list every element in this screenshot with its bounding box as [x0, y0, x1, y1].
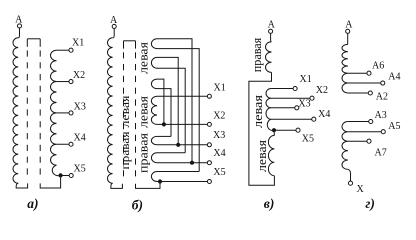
terminal A5 (fig g) — [381, 130, 385, 134]
bottom wire left winding to core left limb (fig b) — [111, 183, 123, 188]
upper winding section (fig g) — [342, 44, 348, 93]
wire S1 bottom to S7 top (fig b) — [157, 49, 199, 172]
terminal A (fig g) — [346, 29, 350, 33]
svg-text:левая: левая — [254, 140, 269, 172]
junction X5 (fig a) — [59, 173, 63, 177]
winding section S1 (fig b) — [151, 39, 157, 49]
terminal X5 (fig a) — [69, 173, 73, 177]
junction X4 (fig b) — [190, 161, 194, 165]
core left limb solid stub (fig b) — [123, 41, 125, 49]
core right limb dashed (fig b) — [135, 52, 137, 179]
svg-text:X4: X4 — [318, 109, 330, 120]
terminal X1 (fig v) — [293, 86, 297, 90]
svg-text:A7: A7 — [375, 147, 387, 158]
terminal A7 (fig g) — [367, 139, 371, 143]
junction X5 (fig b) — [158, 179, 162, 183]
svg-text:X3: X3 — [74, 102, 86, 113]
terminal X4 (fig b) — [207, 161, 211, 165]
terminal A4 (fig g) — [381, 81, 385, 85]
svg-text:а): а) — [27, 196, 38, 211]
svg-text:X1: X1 — [214, 83, 226, 94]
wire junction to levaya-2 (fig v) — [273, 130, 275, 135]
lower winding section (fig g) — [342, 122, 348, 170]
svg-text:X5: X5 — [74, 164, 86, 175]
wire S2 bottom to S6 top (fig b) — [157, 68, 185, 153]
svg-text:A: A — [345, 19, 353, 30]
svg-text:левая: левая — [136, 96, 151, 128]
wire tap X1 (fig v) — [271, 88, 293, 90]
terminal X4 (fig v) — [312, 117, 316, 121]
wire tap A7 (fig g) — [348, 140, 367, 142]
levaya-2 winding coil (fig v) — [268, 135, 274, 175]
wire S2 top to X3 junction (fig b) — [157, 57, 178, 144]
bottom wire left winding to core left limb (fig a) — [16, 183, 27, 188]
winding section S3 (fig b) — [151, 79, 157, 89]
left winding coil (fig b) — [107, 38, 112, 183]
wire tap A2 (fig g) — [348, 92, 369, 94]
svg-text:A6: A6 — [372, 60, 384, 71]
left winding coil (fig a) — [13, 38, 18, 183]
svg-text:X5: X5 — [302, 133, 314, 144]
levaya-1 winding coil (fig v) — [266, 89, 274, 131]
wire S1 top to X4 junction (fig b) — [157, 39, 192, 163]
wire from terminal A to left winding (fig a) — [18, 28, 19, 38]
terminal X3 (fig a) — [69, 111, 73, 115]
wire tap X2 (fig v) — [271, 97, 310, 99]
core right limb solid stub (fig a) — [39, 39, 41, 47]
core left limb dashed (fig b) — [123, 52, 125, 179]
wire tap X4 (fig a) — [57, 143, 70, 145]
winding section S5 (fig b) — [151, 136, 157, 144]
svg-text:A2: A2 — [376, 92, 388, 103]
junction X2 (fig b) — [162, 122, 166, 126]
svg-text:правая: правая — [249, 38, 264, 73]
wire pravaya to levaya-2 via left rail (fig v) — [249, 72, 275, 185]
wire tap X4 (fig b) — [157, 162, 208, 164]
wire tap X3 (fig a) — [57, 112, 70, 114]
svg-text:левая: левая — [136, 42, 151, 74]
terminal X2 (fig b) — [207, 122, 211, 126]
terminal X3 (fig v) — [295, 106, 299, 110]
wire S7 top stub (fig b) — [157, 171, 199, 173]
svg-text:X2: X2 — [213, 110, 225, 121]
svg-text:A4: A4 — [388, 72, 400, 83]
svg-text:X: X — [357, 184, 365, 195]
terminal A3 (fig g) — [369, 119, 373, 123]
core top cap (fig b) — [124, 40, 136, 42]
svg-text:X4: X4 — [74, 133, 86, 144]
wire S5 top stub (fig b) — [157, 135, 171, 137]
wire from terminal A to pravaya winding (fig v) — [270, 33, 273, 42]
svg-text:г): г) — [365, 196, 374, 211]
svg-text:A3: A3 — [375, 110, 387, 121]
svg-text:X4: X4 — [213, 148, 225, 159]
wire tap X1 (fig a) — [57, 49, 70, 51]
svg-text:X2: X2 — [73, 70, 85, 81]
wire tap X5 (fig b) — [157, 181, 208, 183]
wire from terminal A to winding (fig g) — [347, 33, 349, 44]
terminal X5 (fig v) — [296, 128, 300, 132]
wire tap X1 (fig b) — [157, 95, 208, 97]
pravaya winding coil (fig v) — [266, 42, 272, 73]
winding section S7 (fig b) — [151, 172, 157, 182]
wire tap A4 (fig g) — [348, 82, 381, 84]
svg-text:A: A — [268, 20, 276, 31]
wire tap X2 (fig a) — [57, 81, 70, 83]
wire tap X3 (fig v) — [271, 107, 295, 109]
junction X3 (fig b) — [176, 143, 180, 147]
terminal X (fig g) — [348, 181, 352, 185]
core right limb dashed (fig a) — [39, 50, 41, 178]
wire tap A5 (fig g) — [348, 131, 381, 133]
svg-text:X2: X2 — [316, 85, 328, 96]
wire S6 top stub (fig b) — [157, 152, 185, 154]
bottom wire core right limb to right winding (fig a) — [40, 177, 60, 188]
wire tap X5 (fig v) — [274, 129, 296, 131]
wire S3 bottom to S5 top (fig b) — [157, 89, 171, 137]
terminal X1 (fig b) — [207, 94, 211, 98]
terminal A6 (fig g) — [367, 71, 371, 75]
wire tap X4 (fig v) — [271, 118, 312, 120]
terminal X3 (fig b) — [207, 143, 211, 147]
bottom wire core right limb to section S7 junction (fig b) — [136, 184, 161, 189]
winding section S2 (fig b) — [151, 57, 157, 68]
svg-text:левая: левая — [120, 95, 132, 128]
wire from terminal A to left winding (fig b) — [113, 28, 114, 38]
terminal A (fig v) — [269, 29, 273, 33]
wire tap X2 (fig b) — [157, 123, 208, 125]
svg-text:правая: правая — [136, 133, 151, 173]
winding section S6 (fig b) — [151, 153, 157, 163]
wire winding bottom to terminal X (fig g) — [348, 169, 351, 181]
core right limb solid stub (fig b) — [135, 41, 137, 49]
wire tap A6 (fig g) — [348, 72, 367, 74]
svg-text:X5: X5 — [213, 167, 225, 178]
svg-text:в): в) — [264, 196, 275, 211]
core left limb dashed (fig a) — [26, 50, 28, 178]
wire tap X3 (fig b) — [157, 144, 208, 146]
svg-text:A5: A5 — [388, 121, 400, 132]
right winding coil (fig a) — [50, 50, 60, 176]
svg-text:X3: X3 — [298, 99, 310, 110]
terminal A2 (fig g) — [368, 91, 372, 95]
svg-text:X3: X3 — [213, 130, 225, 141]
terminal A (fig b) — [112, 24, 116, 28]
terminal X1 (fig a) — [69, 48, 73, 52]
svg-text:б): б) — [132, 197, 143, 212]
wire tap X5 (fig a) — [61, 175, 70, 177]
svg-text:X1: X1 — [300, 74, 312, 85]
winding section S4 (fig b) — [151, 96, 157, 124]
svg-text:X1: X1 — [72, 37, 84, 48]
terminal X2 (fig a) — [69, 80, 73, 84]
junction X5 to levaya-2 (fig v) — [272, 128, 276, 132]
terminal X4 (fig a) — [69, 142, 73, 146]
terminal X5 (fig b) — [207, 180, 211, 184]
svg-text:левая: левая — [250, 95, 265, 128]
svg-text:правая: правая — [120, 131, 132, 170]
core left limb solid stub (fig a) — [26, 39, 28, 47]
wire tap A3 (fig g) — [348, 121, 369, 123]
core top cap (fig a) — [27, 38, 40, 40]
terminal X2 (fig v) — [310, 96, 314, 100]
terminal A (fig a) — [17, 24, 21, 28]
wire S3 top to X2 junction (fig b) — [157, 79, 164, 124]
